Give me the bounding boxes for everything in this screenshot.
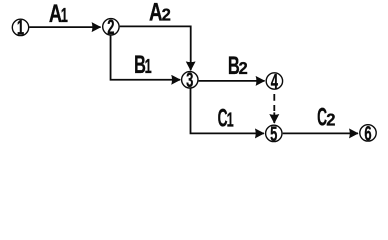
node 2 [103,15,119,39]
wire activity C2 arrow 5->6 [283,132,358,134]
wire activity C1 arrow 3->5 (down then right) [191,88,264,133]
wire activity B1 arrow 2->3 (down then right) [111,35,181,79]
svg-text:2: 2 [239,59,248,78]
node 5 [266,122,282,146]
wire dummy activity dashed arrow 4->5 [273,94,275,111]
node 4 [266,69,282,93]
node 3 [182,68,198,92]
svg-text:1: 1 [17,15,24,39]
svg-text:4: 4 [271,69,278,93]
label B2 [228,53,248,80]
wire activity A2 arrow 2->3 (right then down) [120,26,191,70]
wire activity B2 arrow 3->4 [199,80,265,82]
node 6 [360,121,376,145]
svg-text:5: 5 [270,122,277,146]
svg-text:1: 1 [145,55,152,78]
svg-text:A: A [149,0,163,26]
label A1 [49,0,68,28]
svg-text:3: 3 [186,68,193,92]
svg-text:1: 1 [61,4,68,27]
svg-text:2: 2 [326,110,335,129]
label C1 [218,105,234,132]
label B1 [134,52,152,79]
svg-text:1: 1 [227,109,234,132]
svg-text:2: 2 [107,15,114,39]
label A2 [149,0,171,26]
svg-text:2: 2 [162,5,171,24]
svg-text:6: 6 [364,121,371,145]
wire activity A1 arrow 1->2 [29,26,100,28]
node 1 [12,15,28,39]
label C2 [317,104,335,131]
